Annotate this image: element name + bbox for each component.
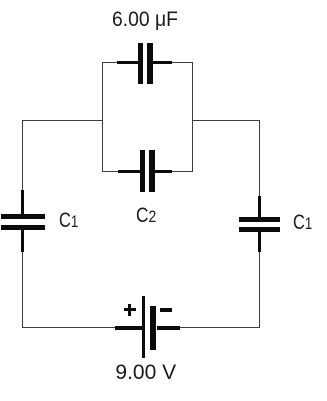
capacitor C1 (right rail)	[0, 0, 327, 1]
label: C1 (left)	[59, 209, 78, 233]
wire: parallel box left edge vertical	[102, 62, 103, 172]
battery 9.00 V (bottom wire)	[0, 0, 327, 1]
wire: top branch right stub	[171, 62, 193, 63]
wire: mid-left horizontal (left rail to parallel box)	[22, 120, 103, 121]
wire: right rail lower (right C1 bottom lead to bottom wire)	[259, 251, 260, 328]
wire: top branch left stub	[102, 62, 118, 63]
wire: bottom-right horizontal (battery to right rail)	[179, 327, 260, 328]
battery plus mark	[0, 0, 327, 1]
label: 6.00 uF value	[112, 8, 178, 32]
wire: mid-right horizontal (parallel box to right rail)	[192, 120, 260, 121]
capacitor C2 (bottom branch)	[0, 0, 327, 1]
wire: left rail lower (C1 bottom lead to bottom wire)	[22, 251, 23, 328]
wire: left rail upper (node to C1 top lead)	[22, 120, 23, 191]
capacitor 6.00 uF (top branch)	[0, 0, 327, 1]
wire: parallel box right edge vertical	[192, 62, 193, 172]
wire: bottom-left horizontal (left rail to battery)	[22, 327, 116, 328]
battery minus mark	[160, 308, 172, 312]
label: C1 (right)	[293, 211, 312, 235]
label: 9.00 V value	[115, 361, 176, 385]
wire: bottom branch left stub	[102, 171, 119, 172]
label: C2	[136, 204, 156, 228]
wire: bottom branch right stub	[171, 171, 193, 172]
wire: right rail upper (node to right C1 top lead)	[259, 120, 260, 197]
capacitor C1 (left rail)	[0, 0, 327, 1]
